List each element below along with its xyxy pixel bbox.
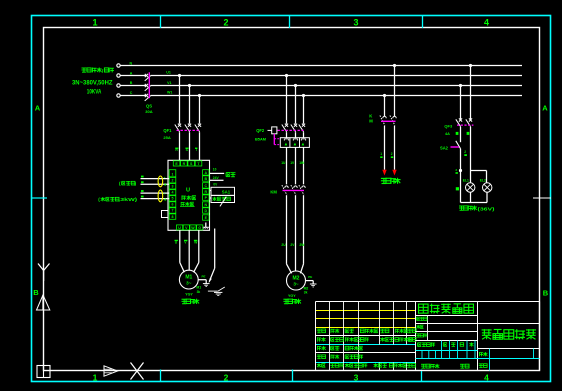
right wire 1: [210, 172, 225, 174]
QS label: [145, 104, 152, 114]
lamp EL2: [483, 183, 492, 192]
wire M2 s2 2: [295, 147, 297, 184]
svg-text:8: 8: [172, 215, 174, 219]
tb small label 2: [416, 325, 423, 329]
terminal circle L3: [117, 94, 120, 97]
svg-text:C: C: [130, 91, 133, 95]
bus line L3 seg a: [120, 95, 147, 97]
svg-text:2: 2: [172, 178, 174, 182]
svg-text:4: 4: [484, 372, 489, 382]
motor M1 sublabel: [196, 286, 201, 294]
zone letter A right: [542, 104, 548, 113]
svg-text:2: 2: [464, 150, 466, 154]
right wire 1 number: [213, 168, 217, 172]
VFD right pin column: [203, 170, 209, 221]
wire drop R: [179, 76, 181, 124]
svg-text:1: 1: [92, 17, 97, 27]
analog wire pair1 a: [141, 178, 170, 180]
svg-text:2: 2: [223, 17, 228, 27]
label weighing instrument: [119, 181, 137, 186]
schematic title text: [482, 329, 536, 339]
svg-text:7: 7: [172, 209, 174, 213]
bus line L2 seg a: [120, 85, 147, 87]
branch4 caption: [459, 206, 495, 213]
wire b4 right drop: [470, 66, 472, 121]
wire label T: [195, 148, 198, 153]
svg-text:2: 2: [224, 372, 229, 382]
terminal arrow left: [382, 170, 386, 176]
junction dot L2-S: [188, 84, 191, 87]
svg-text:25A: 25A: [163, 135, 170, 140]
tb small label 3: [416, 333, 427, 337]
VFD top pin row: [173, 161, 202, 166]
contactor KM aux pole 2: [390, 116, 396, 126]
junction dot L3-T: [198, 94, 201, 97]
KM aux label: [369, 114, 373, 124]
QF2 trip link: [274, 134, 280, 145]
svg-text:QF3: QF3: [444, 124, 453, 129]
wire b3 left drop: [384, 96, 386, 117]
svg-text:SA1: SA1: [222, 189, 231, 194]
zone letter A left: [35, 104, 41, 113]
tb right label zl: [479, 352, 487, 356]
terminal arrow right: [392, 170, 396, 176]
QS link line: [148, 72, 150, 98]
zone tick right A|B: [533, 197, 551, 199]
svg-text:R: R: [183, 162, 186, 166]
title row biaoji: [317, 329, 416, 333]
wire M2 s2 3: [303, 147, 305, 184]
wire M2 s3 1: [287, 195, 292, 273]
wire label 36V: [455, 168, 458, 174]
zone tick bottom 1|2: [160, 370, 162, 382]
svg-text:1U: 1U: [281, 161, 286, 165]
VFD PE down wire: [209, 229, 215, 284]
supply note line1: [82, 68, 114, 75]
earth bar 1: [204, 283, 212, 285]
zone letter B right: [543, 289, 549, 298]
terminal circle L0: [117, 64, 120, 67]
lamp EL2 label: [480, 179, 486, 183]
svg-text:QF1: QF1: [163, 128, 172, 133]
SA1 lever: [220, 197, 226, 207]
zone number 4 bottom: [484, 372, 489, 382]
green mark b4: [456, 187, 459, 190]
svg-text:KM: KM: [270, 189, 277, 194]
wire M2 mid 1: [286, 132, 288, 138]
motor M1 type label: [185, 292, 193, 296]
bus line L1 seg a: [120, 75, 147, 77]
svg-text:M: M: [369, 118, 373, 123]
QF2 label: [255, 128, 267, 142]
motor M2 circle: [287, 271, 306, 290]
bus line L1 seg b: [151, 75, 522, 77]
second earth lead: [217, 287, 224, 292]
wire number b3 left: [380, 152, 382, 158]
second earth bars: [214, 292, 222, 295]
breaker QF2 pole 3: [299, 124, 305, 132]
wire M2 drop 3: [303, 96, 305, 124]
svg-text:EL2: EL2: [480, 179, 486, 183]
lamp bottom rail: [461, 202, 488, 204]
motor M1 name: [182, 299, 200, 304]
svg-text:1: 1: [93, 372, 98, 382]
phase label B: [130, 81, 133, 85]
contactor KM aux pole 1: [380, 116, 386, 126]
zone tick left A|B: [32, 197, 48, 199]
svg-text:A: A: [204, 171, 207, 175]
wire M2 s3 2: [295, 195, 297, 271]
motor M1 ground: [203, 280, 210, 287]
svg-text:-: -: [164, 175, 166, 181]
wire W down: [194, 230, 199, 272]
motor M1 text: [185, 275, 192, 286]
zone tick bottom 2|3: [292, 370, 294, 382]
svg-text:2U: 2U: [281, 243, 286, 247]
svg-text:N: N: [204, 203, 207, 207]
svg-text:W1: W1: [167, 91, 172, 95]
wire label V1: [167, 81, 171, 85]
zone tick top 2|3: [289, 16, 291, 29]
drawing title text: [419, 304, 474, 314]
VFD left pin column: [169, 170, 176, 220]
svg-text:B: B: [204, 177, 207, 181]
right wire 2 label: [213, 176, 220, 180]
junction dot b4 L2: [459, 84, 462, 87]
svg-text:R: R: [204, 190, 207, 194]
svg-text:YGY: YGY: [288, 294, 296, 298]
tb right label bz: [479, 364, 487, 368]
wire T mid: [199, 132, 201, 160]
motor M2 type label: [288, 294, 296, 298]
phase label C: [130, 91, 133, 95]
contactor KM pole 1: [282, 185, 288, 195]
svg-text:EL1: EL1: [463, 179, 469, 183]
corner mark square bottom-left: [37, 366, 50, 378]
wire b3 right drop: [394, 66, 396, 117]
lamp2 bottom wire: [486, 192, 488, 202]
wire b4 right down: [470, 127, 472, 171]
shield ellipse 2: [158, 190, 163, 202]
wire label W1: [167, 91, 172, 95]
motor M1 circle: [179, 270, 198, 289]
polarity marks pair2: [164, 191, 167, 204]
bus line L2 seg b: [151, 85, 522, 87]
lamp rail top: [471, 170, 487, 172]
lamp EL1: [466, 183, 475, 192]
svg-text:PE: PE: [202, 275, 206, 279]
svg-text:2: 2: [391, 152, 393, 156]
bus line L3 seg b: [151, 95, 522, 97]
svg-text:+: +: [164, 197, 167, 203]
SA1 box2 text: [212, 197, 230, 201]
title row zhitu: [317, 346, 362, 350]
svg-text:N: N: [130, 61, 133, 65]
phase label N: [130, 61, 133, 65]
inner border frame (white): [44, 28, 540, 371]
center mark Y left border: [38, 264, 50, 282]
svg-text:B5AM: B5AM: [255, 137, 267, 142]
tb row C text: [421, 364, 469, 369]
phase label A: [130, 71, 133, 75]
svg-text:U: U: [178, 226, 181, 230]
zone number 2 top: [223, 17, 228, 27]
KM label b2: [270, 189, 277, 194]
wire M2 s3 3: [300, 195, 303, 273]
title block left grid: [316, 302, 540, 371]
X mark bottom border: [131, 363, 144, 380]
lamp2 top wire: [486, 171, 488, 183]
svg-text:3: 3: [172, 185, 174, 189]
wire drop S: [189, 86, 191, 124]
wire b4 left down: [460, 149, 462, 203]
lamp1 top wire: [470, 171, 472, 183]
wire labels 2U2V2W: [281, 243, 305, 247]
junction dot M2-L1: [285, 74, 288, 77]
svg-text:5: 5: [172, 197, 174, 201]
label signal 2: [98, 197, 138, 202]
QF3 pole marks: [456, 132, 470, 135]
svg-text:A: A: [130, 71, 133, 75]
breaker QF1 pole 2: [185, 124, 191, 132]
svg-text:B: B: [130, 81, 133, 85]
KM link: [283, 189, 305, 191]
svg-text:3k: 3k: [304, 290, 308, 294]
VFD U outer box: [168, 160, 210, 230]
zone number 1 bottom: [93, 372, 98, 382]
svg-text:SA2: SA2: [440, 145, 449, 150]
svg-text:3: 3: [455, 168, 457, 172]
zone number 4 top: [484, 17, 489, 27]
zone number 3 bottom: [354, 372, 359, 382]
terminal circle L1: [117, 74, 120, 77]
wire number b3 right: [391, 152, 393, 158]
QF3 label: [444, 124, 453, 136]
VFD bottom pin row: [177, 225, 203, 230]
SA2 label: [440, 145, 449, 150]
breaker QF2 pole 2: [291, 124, 297, 132]
svg-text:QS: QS: [146, 104, 152, 109]
QF2 link dashed: [278, 129, 304, 131]
svg-text:3N~380V,50HZ: 3N~380V,50HZ: [72, 79, 113, 86]
svg-text:U: U: [186, 188, 190, 194]
motor M2 ground: [310, 281, 317, 287]
wire label W2: [194, 240, 198, 245]
right wire 1 label: [226, 173, 235, 177]
disconnector QS pole A: [145, 74, 151, 81]
QF1 label: [163, 128, 172, 140]
wire S mid: [189, 132, 191, 160]
wire M2 drop 1: [286, 76, 288, 124]
breaker QF2 pole 1: [282, 124, 288, 132]
wire drop T: [199, 96, 201, 124]
svg-text:A: A: [542, 104, 548, 113]
QF2 mechanism box: [268, 127, 277, 134]
wire label U1: [166, 71, 171, 75]
arrow mark bottom border: [104, 366, 118, 376]
svg-text:+: +: [164, 183, 167, 189]
disconnector QS pole B: [145, 84, 151, 91]
KM aux link: [381, 120, 396, 122]
tb row A text: [418, 342, 474, 346]
junction dot b4 tee-left: [459, 169, 462, 172]
wire b3 left down: [384, 126, 386, 170]
junction dot L1-R: [178, 74, 181, 77]
wire R mid: [179, 132, 181, 160]
svg-text:G: G: [198, 226, 201, 230]
svg-text:B: B: [33, 288, 39, 297]
motor M2 PE wire: [306, 275, 314, 280]
svg-text:10KVA: 10KVA: [87, 88, 102, 95]
svg-text:D: D: [204, 209, 207, 213]
junction dot b4 N: [469, 64, 472, 67]
title row sheji: [317, 337, 416, 341]
contactor KM pole 2: [291, 185, 297, 195]
QF3 link dashed: [457, 124, 473, 126]
QF1 link dashed: [177, 129, 200, 131]
bus line N: [120, 65, 522, 67]
svg-text:PE: PE: [308, 275, 312, 279]
wire label b4 right: [464, 150, 467, 156]
breaker QF1 pole 1: [175, 124, 181, 132]
shield ellipse 1: [158, 176, 163, 187]
svg-text:30A: 30A: [145, 109, 152, 114]
svg-text:2W: 2W: [299, 243, 305, 247]
VFD notch box: [162, 211, 169, 218]
terminal circle L2: [117, 84, 120, 87]
wire b4 left drop: [460, 86, 462, 121]
svg-text:1: 1: [380, 152, 382, 156]
disconnector QS pole C: [145, 94, 151, 101]
title block cyan grid: [416, 341, 540, 371]
second earth wire: [208, 290, 218, 292]
analog wire pair2 b: [141, 198, 170, 200]
svg-text:C: C: [204, 184, 207, 188]
breaker QF3 pole 1: [456, 118, 462, 126]
svg-text:4A: 4A: [445, 132, 450, 136]
VFD model text: [180, 202, 195, 207]
svg-text:4: 4: [484, 17, 489, 27]
selector switch SA1 box top: [211, 187, 235, 195]
analog wire pair1 b: [141, 183, 170, 185]
wire M2 s2 1: [286, 147, 288, 184]
polarity marks pair1: [164, 175, 167, 189]
selector switch SA1 box bottom: [211, 195, 235, 202]
breaker QF3 pole 2: [466, 118, 472, 126]
lamp1 bottom wire: [470, 192, 472, 202]
wire b4 left mid: [460, 127, 462, 142]
wire label S: [185, 148, 188, 153]
VFD label U: [186, 188, 190, 194]
supply note line2: [72, 79, 113, 86]
wire M2 drop 2: [295, 86, 297, 124]
wire U down: [180, 230, 185, 272]
wire label R: [175, 148, 178, 153]
lamp EL1 label: [463, 179, 469, 183]
contactor KM pole 3: [299, 185, 305, 195]
wire V down: [188, 230, 190, 270]
zone letter B left: [33, 288, 39, 297]
wire M2 mid 3: [303, 132, 305, 138]
motor M2 text: [293, 276, 300, 287]
zone number 1 top: [92, 17, 97, 27]
title block right grid: [316, 302, 540, 371]
tb small label 1: [417, 317, 427, 320]
right tiny label 0V: [213, 183, 218, 187]
svg-text:W: W: [191, 226, 195, 230]
svg-text:,3kW): ,3kW): [118, 197, 138, 202]
switch SA2: [451, 141, 461, 149]
svg-text:QF2: QF2: [256, 128, 265, 133]
svg-text:10: 10: [213, 168, 217, 172]
wire M2 mid 2: [295, 132, 297, 138]
title row gongyi: [317, 355, 363, 359]
fold mark triangle left border: [37, 295, 50, 310]
svg-text:(36V): (36V): [478, 207, 496, 213]
right wire 2: [210, 179, 224, 181]
svg-text:YGY: YGY: [185, 292, 193, 296]
svg-text:3k: 3k: [197, 290, 201, 294]
title row ziti: [317, 363, 416, 367]
breaker QF1 pole 3: [195, 124, 201, 132]
wire b3 right down: [394, 126, 396, 170]
svg-text:3: 3: [354, 372, 359, 382]
junction dot b3 N: [393, 64, 396, 67]
svg-text:3~: 3~: [186, 281, 192, 286]
SA1 stub wires: [210, 191, 212, 199]
branch3 caption: [381, 178, 401, 184]
svg-text:B: B: [543, 289, 549, 298]
junction dot M2-L2: [294, 84, 297, 87]
svg-text:A: A: [35, 104, 41, 113]
junction dot b3 L3: [383, 94, 386, 97]
motor M2 name: [283, 299, 301, 304]
thermal overload relay box: [280, 138, 309, 148]
svg-text:3~: 3~: [293, 282, 299, 287]
svg-text:6: 6: [172, 203, 174, 207]
analog wire pair2 a: [141, 192, 170, 194]
svg-text:24V: 24V: [213, 176, 220, 180]
zone tick top 3|4: [422, 16, 424, 29]
supply note line3: [87, 88, 102, 95]
tiny wire numbers left: [141, 176, 144, 198]
svg-text:1: 1: [172, 172, 174, 176]
svg-text:V1: V1: [167, 81, 171, 85]
svg-text:U1: U1: [166, 71, 171, 75]
VFD PE ground: [203, 223, 209, 229]
junction dot M2-L3: [302, 94, 305, 97]
svg-text:-: -: [164, 191, 166, 197]
wire label V2: [184, 240, 187, 245]
zone tick top 1|2: [160, 16, 162, 29]
wire labels 1U1V1W: [281, 161, 305, 165]
zone number 3 top: [353, 17, 358, 27]
svg-text:4: 4: [172, 191, 174, 195]
wire label U2: [175, 240, 178, 245]
motor M1 PE wire: [198, 275, 206, 280]
svg-text:3: 3: [353, 17, 358, 27]
motor M2 sublabel: [304, 286, 309, 294]
SA1 label: [222, 189, 231, 194]
zone number 2 bottom: [224, 372, 229, 382]
VFD name text: [182, 195, 196, 200]
zone tick bottom 3|4: [421, 370, 423, 382]
